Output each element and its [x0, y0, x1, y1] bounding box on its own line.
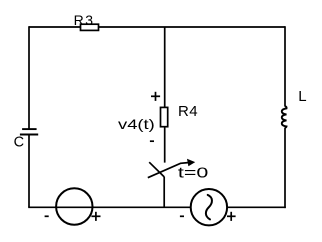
label plus V1 [91, 212, 100, 221]
svg-text:R3: R3 [74, 12, 95, 28]
label minus AC [180, 215, 184, 217]
source AC circle [191, 189, 227, 225]
node plus v4 [151, 92, 160, 101]
AC sine squiggle [206, 195, 212, 220]
resistor R4 [161, 107, 168, 126]
svg-text:L: L [298, 88, 306, 105]
wire middle lower [163, 177, 165, 208]
switch arrow line [148, 163, 188, 178]
wire left lower [28, 135, 30, 208]
wire top [29, 26, 285, 28]
capacitor C [22, 128, 36, 130]
wire bottom right [227, 206, 286, 208]
switch arrowhead [187, 159, 195, 166]
svg-text:C: C [14, 134, 24, 150]
resistor R3 [81, 24, 99, 30]
wire left upper [28, 26, 30, 129]
switch blade [149, 162, 164, 177]
node minus v4 [150, 140, 154, 142]
svg-text:v4(t): v4(t) [118, 116, 155, 132]
wire right lower [284, 128, 286, 209]
label minus V1 [45, 215, 49, 217]
svg-text:R4: R4 [178, 103, 198, 120]
source V1 circle [56, 188, 92, 224]
svg-text:t=0: t=0 [178, 165, 208, 181]
wire right upper [284, 26, 286, 106]
wire bottom left [28, 206, 191, 208]
inductor L [282, 106, 287, 128]
wire middle upper [164, 27, 166, 163]
label plus AC [227, 212, 236, 221]
